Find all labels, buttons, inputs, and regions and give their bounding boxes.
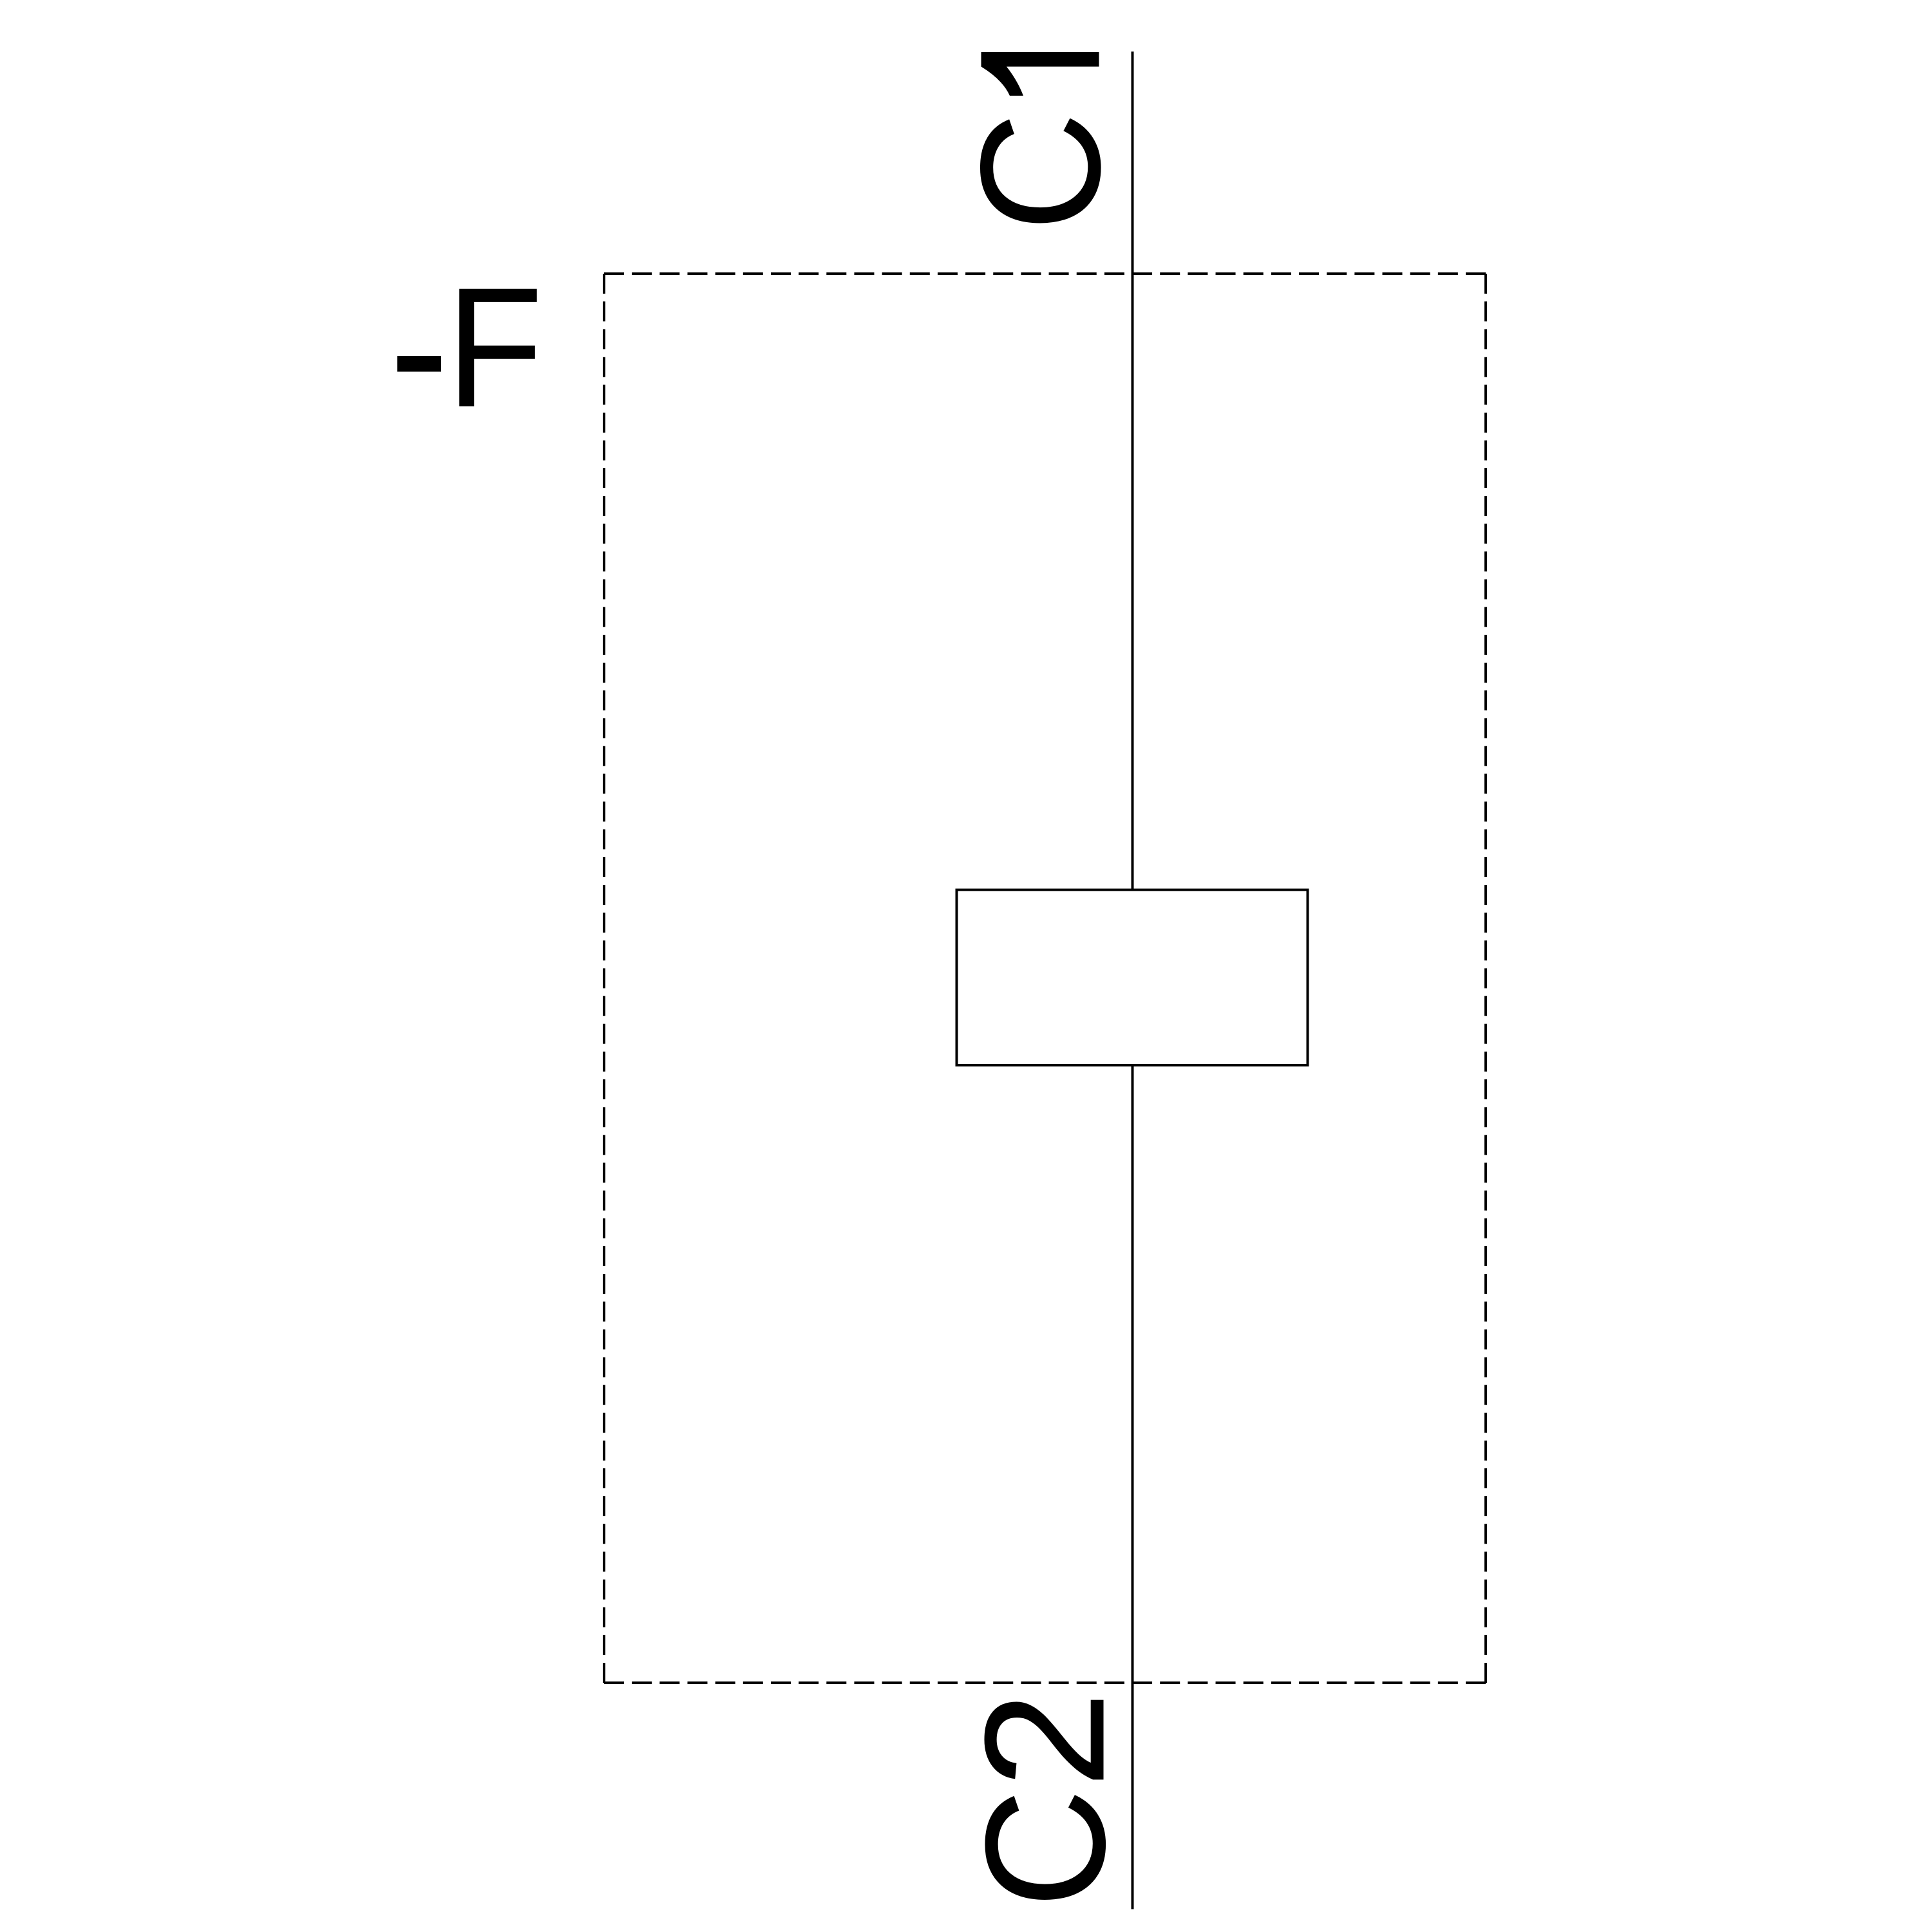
wire C1-C2 vertical lead [1132,52,1134,1909]
dashed enclosure left edge [603,274,605,1683]
dashed enclosure top edge [604,272,1486,275]
svg-text:C: C [951,1788,1141,1908]
component box (surge suppressor element) [957,890,1308,1065]
svg-text:F: F [446,252,544,443]
reference designator -F (hyphen, drawn) [397,356,441,372]
svg-text:C: C [945,112,1135,232]
terminal label C1 (digit 1, drawn path, rotated) [981,52,1099,96]
svg-text:2: 2 [949,1691,1140,1788]
dashed enclosure right edge [1484,274,1487,1683]
dashed enclosure bottom edge [604,1681,1486,1684]
